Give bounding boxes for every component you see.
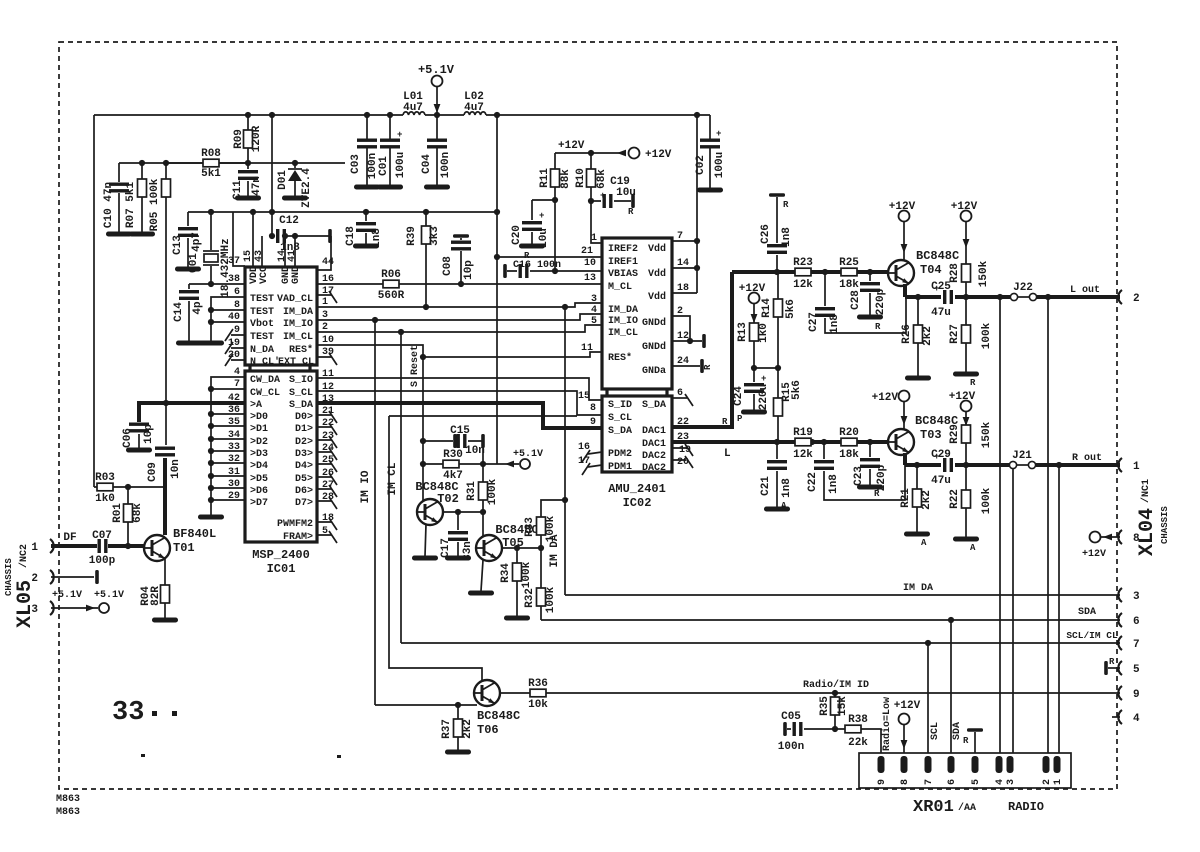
+12V supply into XR01 pin 8 bbox=[894, 700, 921, 756]
scan speck bbox=[337, 755, 341, 758]
svg-text:7: 7 bbox=[677, 231, 683, 242]
svg-text:5: 5 bbox=[591, 316, 597, 327]
svg-text:R: R bbox=[970, 378, 976, 388]
svg-text:47n: 47n bbox=[251, 176, 263, 196]
resistor R31 100k bbox=[466, 441, 499, 512]
svg-text:3: 3 bbox=[1133, 591, 1140, 603]
svg-text:68k: 68k bbox=[132, 503, 144, 523]
svg-text:C08: C08 bbox=[442, 256, 454, 276]
svg-text:DAC1: DAC1 bbox=[642, 439, 666, 450]
wire: RES* line IC01 pin10 to IC02 pin11 bbox=[317, 345, 602, 357]
pin 14/41 GND wires up to C12 line bbox=[285, 236, 295, 267]
wire: +5.1V digital rail (y=212) bbox=[188, 211, 497, 213]
wire: S_CL line IC01 pin12 to IC02 pin8 bbox=[317, 391, 602, 415]
resistor R28 150k + supply bbox=[949, 201, 990, 297]
svg-text:/NC2: /NC2 bbox=[18, 544, 30, 568]
svg-text:2k2: 2k2 bbox=[922, 326, 934, 346]
svg-text:1n8: 1n8 bbox=[781, 227, 793, 247]
svg-text:6: 6 bbox=[234, 287, 240, 298]
svg-text:8: 8 bbox=[234, 300, 240, 311]
resistor R30 4k7 bbox=[423, 449, 483, 482]
resistor R10 68k bbox=[575, 153, 608, 201]
svg-text:9: 9 bbox=[1133, 689, 1140, 701]
svg-text:R39: R39 bbox=[406, 226, 418, 246]
svg-text:5k6: 5k6 bbox=[791, 380, 803, 400]
IC02 AMU_2401 upper box bbox=[602, 238, 672, 389]
svg-text:7: 7 bbox=[924, 779, 935, 785]
svg-text:SDA: SDA bbox=[1078, 607, 1096, 618]
capacitor C18 1n8 bbox=[345, 212, 383, 249]
svg-text:4u7: 4u7 bbox=[403, 102, 423, 114]
svg-text:+: + bbox=[539, 211, 544, 221]
wire: T02 collector row bbox=[443, 511, 483, 513]
svg-text:AMU_2401: AMU_2401 bbox=[608, 482, 666, 496]
svg-text:T04: T04 bbox=[920, 263, 942, 277]
jumper J22 bbox=[1010, 282, 1036, 301]
capacitor C02 100u bbox=[695, 115, 726, 193]
svg-text:R34: R34 bbox=[500, 563, 512, 583]
svg-text:TEST: TEST bbox=[250, 332, 274, 343]
svg-text:100k: 100k bbox=[981, 487, 993, 514]
capacitor C12 1n8 bbox=[269, 215, 332, 254]
svg-text:6: 6 bbox=[1133, 616, 1140, 628]
pin 44 GND wire bbox=[317, 236, 331, 270]
IC02 joining tabs bbox=[607, 389, 667, 396]
svg-text:9: 9 bbox=[877, 779, 888, 785]
capacitor C11 47n bbox=[232, 163, 263, 201]
wire: IM_CL line IC01 pin2 to IC02 pin5 bbox=[317, 325, 602, 332]
svg-text:Vdd: Vdd bbox=[648, 268, 666, 280]
svg-text:SCL: SCL bbox=[930, 722, 941, 740]
svg-text:10: 10 bbox=[584, 258, 596, 269]
svg-text:8: 8 bbox=[590, 403, 596, 414]
svg-text:/NC1: /NC1 bbox=[1140, 479, 1152, 503]
svg-text:Vbot: Vbot bbox=[250, 318, 274, 330]
+5.1V supply arrow (middle) bbox=[483, 449, 543, 469]
svg-text:24: 24 bbox=[677, 356, 689, 367]
svg-text:C07: C07 bbox=[92, 530, 112, 542]
transistor T04 BC848C bbox=[888, 249, 959, 286]
svg-text:R21: R21 bbox=[900, 488, 912, 508]
XR01 pin bars bbox=[878, 756, 1061, 773]
inductor L02 4u7 bbox=[464, 91, 486, 115]
svg-text:R: R bbox=[874, 489, 880, 499]
svg-text:1k0: 1k0 bbox=[758, 323, 770, 343]
wire: L-channel line y442 continuing bbox=[811, 440, 888, 444]
svg-text:XR01: XR01 bbox=[913, 798, 954, 817]
inductor L01 4u7 bbox=[403, 91, 425, 115]
connector XL05 pin 2 bbox=[31, 570, 98, 585]
connector XL04 pin 1 (R out) bbox=[1118, 458, 1122, 472]
svg-text:2: 2 bbox=[677, 306, 683, 317]
svg-text:Radio=Low: Radio=Low bbox=[881, 697, 893, 751]
capacitor C04 100n bbox=[421, 115, 452, 190]
connector XL04 pin 8 +12V input bbox=[1082, 530, 1140, 560]
wire: SDA line (R32 bottom) to XL04 pin6 bbox=[541, 619, 1120, 621]
svg-text:C04: C04 bbox=[421, 154, 433, 174]
svg-text:IREF1: IREF1 bbox=[608, 257, 638, 268]
svg-text:>D0: >D0 bbox=[250, 412, 268, 423]
svg-text:C14: C14 bbox=[173, 302, 185, 322]
svg-text:M_CL: M_CL bbox=[608, 282, 632, 293]
svg-text:100k: 100k bbox=[521, 561, 533, 588]
+12V supply for T03 collector bbox=[872, 391, 910, 430]
svg-text:1: 1 bbox=[31, 542, 38, 554]
svg-text:R11: R11 bbox=[539, 168, 551, 188]
svg-text:12: 12 bbox=[677, 331, 689, 342]
svg-text:+5.1V: +5.1V bbox=[418, 63, 455, 77]
svg-text:+12V: +12V bbox=[739, 283, 766, 295]
svg-text:R22: R22 bbox=[949, 489, 961, 509]
IC01 left NC stubs pins 9 19 20 bbox=[231, 335, 245, 360]
IC02 PDM2/PDM1 NC stubs bbox=[588, 452, 602, 467]
svg-text:R13: R13 bbox=[737, 322, 749, 342]
svg-text:5: 5 bbox=[1133, 664, 1140, 676]
IC02 right Vdd pins 7 14 18 bbox=[672, 241, 697, 293]
svg-text:C10 47n: C10 47n bbox=[103, 182, 115, 228]
resistor R29 150k + supply bbox=[949, 391, 993, 465]
svg-text:PWMFM2: PWMFM2 bbox=[277, 519, 313, 530]
svg-text:R38: R38 bbox=[848, 714, 868, 726]
svg-text:PDM2: PDM2 bbox=[608, 449, 632, 460]
svg-text:>A: >A bbox=[250, 400, 262, 411]
svg-text:12k: 12k bbox=[793, 449, 813, 461]
pin17 / pin39 NC stubs bbox=[317, 295, 332, 357]
svg-text:C05: C05 bbox=[781, 711, 801, 723]
capacitor C10 47n bbox=[103, 163, 132, 237]
resistor R22 100k bbox=[949, 465, 993, 553]
resistor R34 100k bbox=[500, 548, 533, 621]
svg-text:R: R bbox=[628, 207, 634, 217]
svg-text:S_ID: S_ID bbox=[608, 400, 632, 411]
svg-text:68k: 68k bbox=[596, 169, 608, 189]
svg-text:2k2: 2k2 bbox=[462, 719, 474, 739]
resistor R03 1k0 bbox=[94, 472, 165, 505]
wire: R35 to Radio/IM ID line bbox=[832, 690, 838, 696]
capacitor C08 10p bbox=[442, 234, 475, 284]
capacitor C28 220p bbox=[850, 272, 887, 332]
svg-text:A: A bbox=[970, 543, 976, 553]
transistor T03 BC848C bbox=[888, 414, 958, 455]
svg-text:220u: 220u bbox=[758, 384, 770, 410]
wire: J21 vertical taps to XR01 bbox=[1013, 465, 1059, 756]
svg-text:Vdd: Vdd bbox=[648, 243, 666, 255]
svg-text:+5.1V: +5.1V bbox=[52, 590, 82, 601]
svg-text:XL04: XL04 bbox=[1136, 508, 1159, 556]
svg-text:C18: C18 bbox=[345, 226, 357, 246]
svg-text:+12V: +12V bbox=[1082, 549, 1106, 560]
resistor R05 100k bbox=[149, 163, 171, 403]
connector XL04 pin 2 (L out) bbox=[1118, 290, 1122, 304]
wire: 2.4V rail (R08 row) bbox=[119, 162, 345, 164]
svg-text:C21: C21 bbox=[760, 476, 772, 496]
wire: T02 emitter to ground bbox=[425, 524, 426, 556]
svg-text:Vdd: Vdd bbox=[648, 291, 666, 303]
svg-text:C26: C26 bbox=[760, 224, 772, 244]
connector XL04 pin 3 (IM DA) bbox=[1118, 588, 1122, 602]
svg-text:43: 43 bbox=[254, 250, 265, 262]
svg-text:R: R bbox=[524, 251, 530, 261]
wire: IREF2 pin1 feed from R10 bbox=[591, 201, 602, 243]
svg-text:21: 21 bbox=[581, 246, 593, 257]
svg-text:R37: R37 bbox=[441, 719, 453, 739]
svg-text:4: 4 bbox=[995, 779, 1006, 785]
svg-text:R05 100k: R05 100k bbox=[149, 178, 161, 231]
connector XR01 box bbox=[859, 753, 1071, 788]
wire: S Reset column bbox=[422, 357, 424, 501]
svg-text:N_CL': N_CL' bbox=[250, 356, 280, 368]
wire: IC01 test pins 6/8/40 ground column bbox=[211, 297, 245, 341]
svg-text:220p: 220p bbox=[876, 464, 888, 491]
left vertical rail from top rail bbox=[93, 115, 95, 487]
svg-text:SDA: SDA bbox=[952, 722, 963, 740]
connector XL04 pin 9 (Radio/IM ID) bbox=[1118, 686, 1122, 700]
wire: T05 collector row bbox=[502, 547, 541, 549]
svg-text:DF: DF bbox=[63, 532, 76, 544]
svg-text:+12V: +12V bbox=[894, 700, 921, 712]
svg-text:2: 2 bbox=[1042, 779, 1053, 785]
svg-text:4p: 4p bbox=[192, 301, 204, 315]
svg-text:C23: C23 bbox=[853, 466, 865, 486]
svg-text:1n8: 1n8 bbox=[829, 314, 841, 334]
svg-text:EXT_CL: EXT_CL bbox=[278, 357, 314, 368]
svg-text:+: + bbox=[600, 191, 605, 201]
wire: L out thick line bbox=[905, 295, 1120, 299]
wire: J22 vertical taps to XR01 bbox=[1000, 297, 1048, 756]
wire: S_IO line IC01 pin11 to IC02 pin15 bbox=[317, 378, 602, 400]
svg-text:TEST: TEST bbox=[250, 294, 274, 305]
svg-text:150k: 150k bbox=[978, 260, 990, 287]
resistor R36 10k + Radio/IM ID line bbox=[500, 678, 1120, 711]
svg-text:J22: J22 bbox=[1013, 282, 1033, 294]
svg-text:+: + bbox=[761, 374, 766, 384]
capacitor C24 220u bbox=[733, 368, 770, 424]
svg-text:+: + bbox=[716, 129, 721, 139]
svg-text:RADIO: RADIO bbox=[1008, 800, 1044, 814]
svg-text:18.432MHz: 18.432MHz bbox=[220, 238, 232, 297]
svg-text:XL05: XL05 bbox=[14, 580, 37, 628]
svg-text:R20: R20 bbox=[839, 427, 859, 439]
pin 15/43 VDD VCC wires up to rail bbox=[253, 212, 262, 267]
svg-text:100k: 100k bbox=[545, 586, 557, 613]
svg-text:N_DA: N_DA bbox=[250, 345, 274, 356]
svg-text:10p: 10p bbox=[463, 260, 475, 280]
wire: IC01 pin38 line to crystal/C14 bbox=[189, 283, 245, 285]
svg-text:CW_DA: CW_DA bbox=[250, 375, 280, 386]
svg-text:15: 15 bbox=[578, 391, 590, 402]
svg-text:DAC2: DAC2 bbox=[642, 451, 666, 462]
node: rail junction dots bbox=[245, 112, 251, 118]
IC01 pin18 pin5 NC stubs bbox=[317, 522, 332, 535]
IC02 lower box bbox=[602, 396, 672, 472]
svg-text:GNDd: GNDd bbox=[642, 341, 666, 353]
svg-text:A: A bbox=[781, 501, 787, 511]
svg-text:1: 1 bbox=[1053, 779, 1064, 785]
svg-text:44: 44 bbox=[322, 257, 334, 268]
capacitor C27 1n8 bbox=[808, 272, 906, 334]
resistor R20 18k bbox=[839, 427, 859, 461]
transistor T01 BF840L bbox=[144, 527, 216, 561]
svg-text:11: 11 bbox=[581, 343, 593, 354]
svg-text:6: 6 bbox=[947, 779, 958, 785]
svg-text:C09: C09 bbox=[147, 462, 159, 482]
connector XL04 pin 4 (stub) bbox=[1112, 710, 1140, 725]
svg-text:R35: R35 bbox=[819, 696, 831, 716]
wire: IM_DA line IC01 pin1 to IC02 pin3 bbox=[317, 303, 602, 307]
wire: IREF1 pin21 line bbox=[497, 256, 602, 258]
svg-text:R01: R01 bbox=[112, 503, 124, 523]
svg-text:47u: 47u bbox=[931, 307, 951, 319]
svg-text:100k: 100k bbox=[981, 322, 993, 349]
svg-text:2k2: 2k2 bbox=[921, 490, 933, 510]
resistor R27 100k bbox=[949, 297, 993, 388]
svg-text:T03: T03 bbox=[920, 428, 942, 442]
svg-text:IM_CL: IM_CL bbox=[283, 332, 313, 343]
resistor R19 12k bbox=[793, 427, 813, 461]
svg-text:S_DA: S_DA bbox=[608, 426, 632, 437]
svg-text:9: 9 bbox=[590, 417, 596, 428]
svg-text:C13: C13 bbox=[172, 235, 184, 255]
svg-text:14: 14 bbox=[677, 258, 689, 269]
svg-text:BF840L: BF840L bbox=[173, 527, 216, 541]
svg-text:12k: 12k bbox=[793, 279, 813, 291]
resistor R39 3k3 bbox=[406, 212, 441, 308]
svg-text:10u: 10u bbox=[616, 187, 636, 199]
svg-text:R23: R23 bbox=[793, 257, 813, 269]
svg-text:R30: R30 bbox=[443, 449, 463, 461]
resistor R23 12k bbox=[793, 257, 813, 291]
svg-text:Radio/IM ID: Radio/IM ID bbox=[803, 679, 869, 691]
+5.1V supply rail (top) bbox=[94, 114, 710, 116]
svg-text:>D7: >D7 bbox=[250, 498, 268, 509]
resistor R04 82R bbox=[140, 585, 178, 623]
capacitor C17 33n bbox=[440, 512, 474, 561]
svg-text:ZTE2.4: ZTE2.4 bbox=[301, 168, 313, 208]
svg-text:GND: GND bbox=[291, 266, 302, 284]
IC02 GNDa pin 24 bbox=[672, 365, 700, 367]
svg-text:100u: 100u bbox=[395, 152, 407, 178]
svg-text:10n: 10n bbox=[465, 445, 485, 457]
svg-text:MSP_2400: MSP_2400 bbox=[252, 548, 310, 562]
svg-text:5k6: 5k6 bbox=[785, 299, 797, 319]
capacitor C23 220p bbox=[853, 442, 888, 499]
svg-text:S_IO: S_IO bbox=[289, 375, 313, 386]
capacitor C22 1n8 bbox=[807, 442, 905, 500]
svg-text:+12V: +12V bbox=[949, 391, 976, 403]
svg-text:T06: T06 bbox=[477, 723, 499, 737]
svg-text:IM IO: IM IO bbox=[360, 470, 372, 503]
svg-text:A: A bbox=[921, 538, 927, 548]
svg-text:100p: 100p bbox=[89, 555, 116, 567]
svg-text:R: R bbox=[783, 200, 789, 210]
svg-text:1n8: 1n8 bbox=[828, 474, 840, 494]
svg-text:D5>: D5> bbox=[295, 474, 313, 485]
svg-text:IC02: IC02 bbox=[623, 496, 652, 510]
crystal Q01 18.432MHz bbox=[188, 212, 232, 298]
svg-text:D6>: D6> bbox=[295, 486, 313, 497]
svg-text:IC01: IC01 bbox=[267, 562, 296, 576]
wire: IM DA long line to XL04 pin3 bbox=[565, 594, 1120, 596]
capacitor C29 47u bbox=[931, 449, 953, 487]
resistor R15 5k6 bbox=[774, 368, 804, 442]
op-amp/IC U IC01 MSP_2400 upper box bbox=[245, 267, 317, 365]
svg-text:+12V: +12V bbox=[872, 392, 899, 404]
svg-text:IM DA: IM DA bbox=[549, 534, 561, 567]
wire: R out thick line bbox=[905, 463, 1120, 467]
capacitor C21 1n8 bbox=[760, 442, 793, 512]
svg-text:10p: 10p bbox=[143, 424, 155, 444]
jumper J21 bbox=[1009, 450, 1035, 469]
wire: T06 drive line bbox=[389, 416, 577, 681]
svg-text:40: 40 bbox=[228, 312, 240, 323]
svg-text:120R: 120R bbox=[251, 125, 263, 152]
resistor R26 2k2 bbox=[901, 297, 934, 381]
svg-text:5k1: 5k1 bbox=[201, 168, 221, 180]
wire: IC01 pin42 >A thick line bbox=[139, 403, 245, 422]
resistor R09 120R bbox=[233, 115, 263, 163]
svg-text:C27: C27 bbox=[808, 312, 820, 332]
wire: R13/R14 bottom link bbox=[754, 367, 778, 369]
+12V supply for R13 bbox=[739, 283, 766, 323]
resistor R33 100k bbox=[524, 500, 565, 548]
svg-text:+: + bbox=[934, 452, 939, 462]
svg-text:R25: R25 bbox=[839, 257, 859, 269]
resistor R11 88k bbox=[539, 153, 572, 271]
svg-text:PDM1: PDM1 bbox=[608, 462, 632, 473]
svg-text:13: 13 bbox=[584, 273, 596, 284]
svg-text:+12V: +12V bbox=[558, 140, 585, 152]
wire: S_DA thick bus IC01 pin13 to IC02 pin9 bbox=[317, 403, 602, 428]
transistor T02 BC848C bbox=[415, 480, 458, 525]
svg-text:C17: C17 bbox=[440, 538, 452, 558]
connector XL04 pin 6 (SDA) bbox=[1118, 613, 1122, 627]
svg-text:IM_DA: IM_DA bbox=[608, 305, 638, 316]
svg-text:CHASSIS: CHASSIS bbox=[1160, 506, 1170, 544]
wire: SDA column to XR01 pin6 bbox=[950, 620, 952, 756]
svg-text:100n: 100n bbox=[440, 152, 452, 178]
svg-text:DAC2: DAC2 bbox=[642, 463, 666, 474]
resistor R35 15k bbox=[819, 693, 849, 729]
resistor R07 5k1 bbox=[125, 163, 155, 237]
svg-text:VCC: VCC bbox=[259, 266, 270, 284]
capacitor C13 4p7 bbox=[172, 212, 203, 272]
capacitor C09 10n bbox=[147, 403, 182, 535]
svg-text:S_CL: S_CL bbox=[608, 413, 632, 424]
transistor T05 BC848C bbox=[476, 512, 539, 561]
svg-text:R: R bbox=[963, 736, 969, 746]
svg-text:S_DA: S_DA bbox=[289, 400, 313, 411]
svg-text:IM_IO: IM_IO bbox=[283, 319, 313, 330]
wire: IM CL column bbox=[400, 332, 402, 643]
svg-text:R14: R14 bbox=[761, 298, 773, 318]
svg-text:M863: M863 bbox=[56, 794, 80, 805]
svg-text:CHASSIS: CHASSIS bbox=[4, 558, 14, 596]
svg-text:+: + bbox=[397, 130, 402, 140]
svg-text:T01: T01 bbox=[173, 541, 195, 555]
svg-text:100k: 100k bbox=[487, 478, 499, 505]
svg-text:J21: J21 bbox=[1012, 450, 1032, 462]
svg-text:CW_CL: CW_CL bbox=[250, 388, 280, 399]
svg-text:T02: T02 bbox=[437, 492, 459, 506]
svg-text:RES*: RES* bbox=[608, 352, 632, 364]
svg-text:VAD_CL: VAD_CL bbox=[277, 294, 313, 305]
resistor R21 2k2 bbox=[900, 465, 933, 548]
svg-text:R31: R31 bbox=[466, 481, 478, 501]
svg-text:C28: C28 bbox=[850, 290, 862, 310]
svg-text:10u: 10u bbox=[538, 228, 550, 248]
svg-text:R: R bbox=[703, 364, 713, 370]
svg-text:>D3: >D3 bbox=[250, 449, 268, 460]
